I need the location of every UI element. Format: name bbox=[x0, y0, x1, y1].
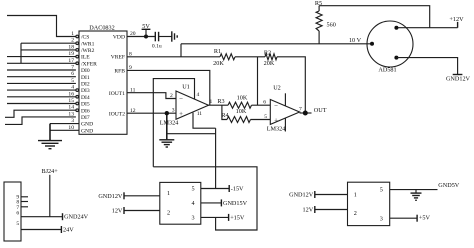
svg-text:GND12V: GND12V bbox=[289, 192, 314, 199]
connector J2 middle box bbox=[160, 182, 201, 224]
power port GND12V right bbox=[446, 75, 471, 83]
svg-text:DI1: DI1 bbox=[81, 75, 90, 81]
svg-text:/WR1: /WR1 bbox=[81, 41, 95, 47]
svg-text:U1: U1 bbox=[182, 83, 190, 90]
svg-text:+5V: +5V bbox=[419, 215, 431, 222]
resistor R3 10K bbox=[217, 94, 251, 108]
wire AD581 ground pin to GND12V bbox=[396, 58, 457, 75]
svg-text:R2: R2 bbox=[264, 49, 271, 56]
wire J3 pin2 to 12V port bbox=[303, 206, 348, 214]
wire /WR2 bbox=[21, 49, 76, 51]
power port +12V bbox=[449, 16, 464, 28]
svg-text:2: 2 bbox=[354, 210, 357, 217]
wire J2 pin4 to GND15V port bbox=[201, 199, 248, 207]
wire R1 to R2 bbox=[235, 56, 265, 58]
svg-text:GND15V: GND15V bbox=[223, 200, 248, 207]
wire J3 pin1 to GND12V port bbox=[289, 191, 347, 199]
wire R2 to output feedback bbox=[277, 57, 305, 113]
svg-text:R3: R3 bbox=[217, 98, 224, 105]
capacitor C1 0.1u bbox=[152, 32, 162, 50]
wire U1 output down to R4 bbox=[222, 105, 227, 119]
DAC0832 input pin inversion bubbles bbox=[76, 35, 79, 111]
wire DI7 stepped bbox=[5, 117, 76, 125]
svg-text:DI3: DI3 bbox=[81, 88, 90, 94]
svg-text:/XFER: /XFER bbox=[81, 61, 97, 67]
wire DI4 bbox=[7, 96, 76, 98]
wire J3 pin5 to GND5V bbox=[390, 182, 460, 190]
wire J1 pin6 to GND24V port bbox=[21, 213, 89, 221]
ground symbol GND5V bbox=[411, 190, 422, 201]
svg-text:LM324: LM324 bbox=[267, 126, 286, 133]
svg-text:4: 4 bbox=[197, 92, 200, 98]
node output junction dot bbox=[303, 111, 308, 116]
svg-text:2: 2 bbox=[167, 210, 170, 217]
wire J1 pin9 stub bbox=[21, 196, 28, 198]
wire DI1 bbox=[7, 76, 76, 78]
svg-text:IOUT1: IOUT1 bbox=[109, 91, 125, 97]
DAC0832 left pin numbers bbox=[68, 31, 74, 131]
svg-text:+15V: +15V bbox=[230, 214, 245, 221]
svg-text:DAC0832: DAC0832 bbox=[89, 25, 114, 32]
wire VREF to R1 bbox=[127, 56, 220, 58]
wire power loop horizontal bbox=[153, 167, 257, 230]
wire J2 pin2 to 12V port bbox=[112, 207, 160, 215]
wire J1 pin8 stub bbox=[21, 201, 28, 203]
svg-text:6: 6 bbox=[16, 210, 19, 216]
svg-text:OUT: OUT bbox=[314, 107, 327, 114]
svg-text:/CS: /CS bbox=[81, 35, 89, 41]
op-amp U2 LM324 bbox=[263, 85, 302, 133]
wire J2 pin1 to GND12V port bbox=[98, 192, 159, 200]
wire DI0 bbox=[7, 69, 76, 71]
svg-text:GND: GND bbox=[81, 122, 93, 128]
DAC0832 right pin names bbox=[109, 35, 125, 118]
DAC0832 left pin names bbox=[81, 35, 97, 135]
svg-text:12V: 12V bbox=[303, 207, 314, 214]
resistor R5 560 bbox=[315, 0, 336, 44]
svg-text:VDD: VDD bbox=[113, 35, 125, 41]
ground symbol rotated right of capacitor bbox=[172, 31, 177, 41]
svg-text:5V: 5V bbox=[142, 23, 150, 30]
svg-text:5: 5 bbox=[380, 187, 383, 194]
wire AD581 Vout top pin to +12V port bbox=[396, 27, 457, 29]
wire ILE bbox=[7, 56, 76, 58]
svg-text:−: − bbox=[274, 103, 278, 110]
svg-text:GND24V: GND24V bbox=[64, 214, 89, 221]
wire 10V line to AD581 bbox=[181, 43, 372, 45]
wire DI5 bbox=[7, 103, 76, 105]
svg-text:−: − bbox=[179, 96, 183, 103]
svg-text:DI6: DI6 bbox=[81, 108, 90, 114]
svg-text:GND5V: GND5V bbox=[438, 182, 459, 189]
power port 5V bbox=[142, 23, 151, 36]
svg-text:+12V: +12V bbox=[449, 16, 464, 23]
wire /XFER bbox=[7, 62, 76, 64]
svg-text:AD581: AD581 bbox=[378, 67, 396, 74]
svg-text:560: 560 bbox=[327, 21, 336, 28]
wire vertical VREF to 10V line bbox=[180, 44, 182, 57]
wire control bus vertical bbox=[20, 43, 22, 63]
resistor R1 20K bbox=[213, 48, 235, 67]
svg-text:1: 1 bbox=[210, 99, 213, 105]
resistor R2 20K bbox=[264, 49, 277, 67]
svg-text:11: 11 bbox=[197, 111, 203, 117]
wire U1 output to R3 bbox=[209, 104, 229, 106]
node VDD junction dot bbox=[144, 35, 148, 39]
svg-text:10 V: 10 V bbox=[349, 37, 362, 44]
svg-text:GND12V: GND12V bbox=[446, 76, 471, 83]
svg-text:5: 5 bbox=[192, 186, 195, 193]
node U1 pin3 ground junction bbox=[165, 111, 169, 115]
svg-text:2: 2 bbox=[170, 93, 173, 99]
wire R1 R2 junction down to U2 inverting input bbox=[257, 57, 259, 105]
svg-text:+: + bbox=[274, 117, 278, 124]
svg-text:20K: 20K bbox=[264, 60, 275, 67]
wire /CS from top left bbox=[7, 16, 76, 37]
svg-text:DI2: DI2 bbox=[81, 82, 90, 88]
wire U1 pin3 to ground bbox=[166, 113, 168, 139]
svg-text:1: 1 bbox=[167, 190, 170, 197]
wire capacitor to ground bbox=[159, 36, 172, 38]
wire U1 pin11 power stub bbox=[193, 113, 216, 129]
svg-text:VREF: VREF bbox=[111, 55, 125, 61]
svg-text:DI0: DI0 bbox=[81, 68, 90, 74]
svg-text:24V: 24V bbox=[63, 227, 74, 234]
connector J3 right box bbox=[348, 182, 390, 225]
svg-text:20K: 20K bbox=[213, 60, 224, 67]
wire J1 pin7 stub bbox=[21, 206, 28, 208]
svg-text:DI5: DI5 bbox=[81, 102, 90, 108]
resistor R4 10K bbox=[221, 108, 250, 123]
svg-text:3: 3 bbox=[380, 215, 383, 222]
svg-text:R4: R4 bbox=[221, 112, 228, 119]
svg-text:12V: 12V bbox=[112, 208, 123, 215]
wire IOUT2 to U1 pin3 bbox=[127, 112, 176, 114]
wire R5 top to +12V bbox=[319, 6, 430, 28]
svg-text:4: 4 bbox=[192, 200, 195, 207]
svg-text:3: 3 bbox=[172, 107, 175, 113]
svg-text:LM324: LM324 bbox=[160, 120, 179, 127]
wire ground tee to right bbox=[167, 133, 216, 135]
svg-text:1: 1 bbox=[354, 192, 357, 199]
svg-text:ILE: ILE bbox=[81, 55, 90, 61]
svg-text:5: 5 bbox=[16, 221, 19, 227]
wire J2 pin5 to -15V port bbox=[201, 185, 244, 193]
svg-text:5: 5 bbox=[264, 114, 267, 120]
svg-text:R1: R1 bbox=[214, 48, 221, 55]
svg-text:7: 7 bbox=[299, 107, 302, 113]
svg-text:6: 6 bbox=[263, 100, 266, 106]
wire IOUT1 to U1 pin2 bbox=[127, 93, 176, 99]
svg-text:/WR2: /WR2 bbox=[81, 48, 95, 54]
svg-text:IOUT2: IOUT2 bbox=[109, 111, 125, 117]
wire DI6 stepped bbox=[5, 110, 76, 117]
wire R3 to U2 pin6 bbox=[252, 104, 271, 106]
svg-text:+: + bbox=[179, 111, 183, 118]
wire GND vertical to ground bbox=[49, 124, 51, 141]
DAC0832 U3 chip body bbox=[79, 25, 127, 135]
wire U1 pin4 power stub bbox=[153, 79, 194, 167]
wire /WR1 bbox=[21, 42, 76, 44]
wire J2 pin3 to +15V port bbox=[201, 214, 245, 222]
ground symbol below DAC bbox=[38, 141, 62, 149]
svg-text:GND: GND bbox=[81, 128, 93, 134]
svg-text:10K: 10K bbox=[237, 94, 248, 101]
connector J1 left box bbox=[4, 182, 21, 241]
svg-text:0.1u: 0.1u bbox=[152, 44, 162, 50]
svg-text:BJ24+: BJ24+ bbox=[41, 168, 58, 175]
svg-text:RFB: RFB bbox=[114, 69, 125, 75]
wire R4 to U2 pin5 bbox=[251, 119, 271, 121]
svg-text:-15V: -15V bbox=[231, 186, 244, 193]
voltage reference U4 AD581 bbox=[367, 21, 413, 74]
svg-text:DI4: DI4 bbox=[81, 95, 90, 101]
svg-text:DI7: DI7 bbox=[81, 115, 90, 121]
wire VDD pin 20 bbox=[127, 36, 155, 38]
svg-text:10K: 10K bbox=[236, 108, 247, 115]
DAC0832 right pin numbers bbox=[129, 31, 136, 114]
node BJ24+ net bbox=[41, 168, 58, 217]
wire DI2 bbox=[7, 82, 76, 84]
ground symbol below U1 bbox=[159, 140, 174, 147]
wire GND pin10 bbox=[50, 129, 79, 131]
wire RFB to U1 output bbox=[127, 70, 210, 105]
svg-text:3: 3 bbox=[192, 215, 195, 222]
svg-text:GND12V: GND12V bbox=[98, 193, 123, 200]
wire -15V bus vertical bbox=[215, 128, 217, 188]
wire DI3 bbox=[7, 89, 76, 91]
wire GND pin3 bbox=[50, 123, 79, 125]
wire J1 pin5 to 24V port bbox=[21, 226, 74, 234]
svg-text:U2: U2 bbox=[273, 85, 281, 92]
wire U2 output bbox=[300, 112, 312, 114]
op-amp U1 LM324 bbox=[160, 83, 213, 126]
wire J3 pin3 to +5V port bbox=[390, 215, 431, 222]
